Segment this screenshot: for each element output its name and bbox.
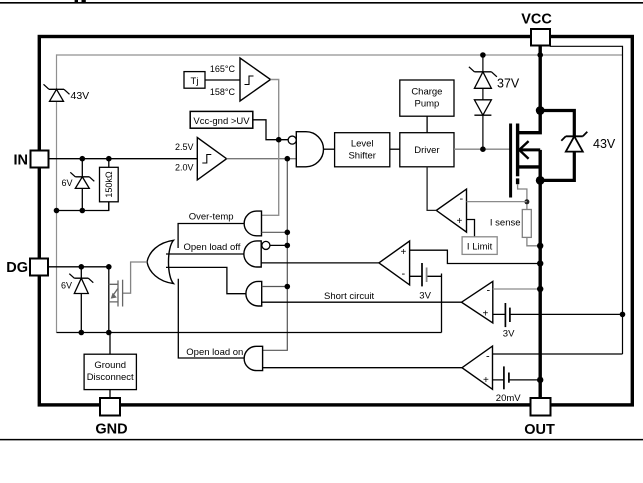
wire: M2 drain-source vertical: [108, 267, 110, 333]
wire: U4 output to G4: [261, 262, 379, 264]
node: sense / comparator junction: [524, 199, 529, 204]
node: line B tap at U2 output: [285, 156, 291, 162]
svg-text:37V: 37V: [497, 77, 520, 91]
wire: G6 output to OR: [178, 279, 244, 358]
wire: OUT thick line: [539, 178, 542, 398]
wire: input signal line B: [263, 159, 288, 351]
wire: IN divider bottom link: [57, 202, 109, 211]
svg-text:+: +: [401, 247, 407, 258]
svg-text:43V: 43V: [71, 90, 90, 102]
node: rail / VCC line junction: [537, 52, 543, 58]
wire: VCC link to right-side sense line: [550, 46, 623, 354]
wire: U6 output to G6 bottom input: [263, 367, 462, 369]
box Driver: [400, 133, 454, 167]
svg-text:DG: DG: [6, 260, 28, 276]
battery B3 20mV: [493, 379, 541, 381]
box Vcc-gnd UV: [190, 111, 253, 128]
IC outline thick border: [39, 37, 632, 405]
node: 37V string / gate wire junction: [480, 146, 486, 152]
svg-text:Pump: Pump: [414, 99, 439, 110]
svg-text:20mV: 20mV: [496, 393, 521, 404]
wire: thermal signal line A: [262, 80, 279, 216]
wire: G2 output to OR: [178, 224, 244, 249]
header rule: [0, 2, 643, 4]
node: zener/resistor bottom junction: [80, 208, 86, 214]
node: DG/zener junction: [79, 264, 85, 270]
node: sense/OUT junction: [537, 243, 543, 249]
wire: sense tap from Q1: [518, 184, 527, 210]
and-gate G2 over-temp (left-pointing): [244, 211, 261, 236]
node: IN/zener junction: [80, 156, 86, 162]
comparator U1 (thermal): [240, 58, 271, 101]
battery B1 3V: [410, 275, 442, 277]
svg-text:43V: 43V: [593, 137, 616, 151]
inverter bubble on G1 input: [288, 136, 296, 144]
zener D1 43V (clamp on rail): [44, 84, 70, 101]
svg-text:Short circuit: Short circuit: [324, 291, 375, 302]
node: right sense line / 3V battery tap: [620, 312, 626, 318]
wire: U6 inverting input to right sense line: [493, 353, 623, 355]
wire: U3 output to Driver: [427, 167, 436, 211]
wire: 43V clamp branch (thick): [540, 111, 574, 181]
svg-text:150kΩ: 150kΩ: [104, 171, 114, 198]
wire: ground line to Ground Disconnect: [109, 333, 111, 355]
svg-text:Disconnect: Disconnect: [87, 372, 134, 383]
svg-text:-: -: [460, 193, 464, 205]
svg-text:+: +: [483, 375, 489, 386]
wire: G3 output to OR: [166, 253, 244, 255]
svg-text:GND: GND: [95, 422, 127, 438]
and-gate G6 open load on (left-pointing): [244, 346, 262, 370]
wire: Charge Pump to Driver: [426, 116, 428, 133]
pin GND: [100, 398, 120, 416]
svg-text:Tj: Tj: [191, 76, 199, 87]
comparator U2 (input threshold): [197, 138, 226, 180]
battery B2 3V: [493, 313, 623, 315]
power MOSFET Q1: [511, 124, 541, 198]
inverter bubble on G3 input: [262, 241, 270, 249]
svg-text:Level: Level: [351, 139, 374, 150]
wire: U2 output: [227, 158, 297, 160]
node: DG/M2 junction: [106, 264, 112, 270]
wire: 37V clamp string: [482, 55, 484, 149]
svg-text:+: +: [457, 216, 463, 227]
node: ground/M2 junction: [106, 330, 112, 336]
wire: U3 inverting input: [467, 201, 527, 203]
svg-text:Open load off: Open load off: [184, 242, 241, 253]
node: line B / G4 junction: [285, 284, 291, 290]
svg-text:Charge: Charge: [411, 87, 442, 98]
pin VCC: [531, 29, 550, 46]
wire: inner VCC rail (top): [57, 54, 623, 56]
node: IN/resistor junction: [106, 156, 112, 162]
node: drain/clamp junction: [536, 106, 545, 115]
svg-text:-: -: [402, 268, 406, 280]
wire: G4 top input to line B: [262, 286, 288, 288]
wire: sense resistor to OUT: [527, 237, 540, 245]
and-gate G3 open load off (left-pointing): [244, 241, 261, 267]
svg-text:2.5V: 2.5V: [175, 142, 194, 152]
svg-text:2.0V: 2.0V: [175, 163, 194, 173]
wire: Tj to comparator: [205, 79, 240, 81]
wire: G4 output to OR: [166, 267, 246, 293]
svg-text:6V: 6V: [61, 281, 72, 291]
svg-text:6V: 6V: [62, 178, 73, 188]
svg-text:Over-temp: Over-temp: [189, 212, 234, 223]
svg-text:VCC: VCC: [521, 12, 552, 28]
box Charge Pump: [400, 80, 454, 116]
node: U5/OUT junction: [537, 286, 543, 292]
svg-text:Shifter: Shifter: [348, 151, 375, 162]
box Tj: [184, 72, 205, 89]
wire: DG net: [48, 266, 109, 268]
svg-text:Vcc-gnd >UV: Vcc-gnd >UV: [193, 116, 250, 127]
wire: G5 output to M2 gate: [123, 262, 147, 293]
comparator U3 (current limit): [436, 189, 466, 232]
or-gate G5 fault (left-pointing): [147, 240, 174, 283]
wire: U4 non-inverting input to OUT: [410, 250, 541, 263]
wire: U3 non-inverting input to I Limit: [467, 220, 475, 237]
wire: G2 bottom input to line B: [262, 231, 288, 233]
zener D2 6V (IN clamp): [70, 159, 94, 211]
wire: U5 inverting input to OUT: [493, 288, 540, 290]
box I Limit: [462, 237, 497, 255]
wire: G3 bubble to line B: [270, 244, 287, 246]
svg-text:Driver: Driver: [414, 145, 439, 156]
transistor M2 (ground disconnect FET): [109, 280, 123, 307]
node: ground/zener junction: [79, 330, 85, 336]
wire: Ground Disconnect to GND pin: [109, 390, 111, 398]
svg-text:3V: 3V: [419, 290, 431, 301]
pin DG: [30, 259, 48, 276]
zener D6 6V (DG clamp): [69, 267, 93, 333]
svg-text:3V: 3V: [503, 328, 515, 339]
svg-text:OUT: OUT: [524, 422, 555, 438]
node: rail / 37V string junction: [480, 52, 486, 58]
wire: UV to AND input: [253, 120, 288, 140]
wire: inner rail left vertical: [56, 54, 58, 332]
wire: VCC thick line to drain: [518, 46, 541, 133]
pin IN: [31, 151, 49, 168]
svg-text:-: -: [486, 351, 490, 363]
svg-text:158°C: 158°C: [210, 87, 236, 97]
svg-text:I sense: I sense: [490, 218, 521, 229]
header text remnant: [75, 0, 78, 2]
svg-text:Ground: Ground: [94, 360, 126, 371]
box Level Shifter: [335, 133, 390, 167]
wire: G1 output: [324, 148, 335, 150]
node: B3/OUT junction: [537, 377, 543, 383]
node: line B / G2 junction: [285, 230, 291, 236]
svg-text:165°C: 165°C: [210, 64, 236, 74]
and-gate G4 short circuit (left-pointing): [246, 281, 262, 306]
node: line B / G3 junction: [285, 243, 291, 249]
box Ground Disconnect: [84, 354, 136, 389]
comparator U4 (short circuit detect): [379, 241, 410, 285]
node: U4/OUT junction: [537, 260, 543, 266]
zener D3 37V: [469, 67, 497, 89]
svg-text:Open load on: Open load on: [186, 347, 243, 358]
node: rail-IN divider junction: [54, 208, 60, 214]
wire: U5 output to G4 bottom input: [262, 301, 462, 303]
comparator U5 (open load off detect): [462, 281, 493, 323]
wire: Driver to gate: [454, 148, 511, 150]
comparator U6 (open load on detect): [462, 346, 493, 389]
svg-text:-: -: [487, 285, 491, 297]
diode D4: [474, 100, 491, 115]
wire: LS to Driver: [390, 148, 400, 150]
svg-text:I Limit: I Limit: [467, 241, 493, 252]
node: source/clamp junction: [536, 176, 545, 185]
svg-text:IN: IN: [14, 152, 29, 168]
resistor R2 I sense: [522, 210, 531, 238]
pin OUT: [531, 398, 551, 416]
resistor R1 150k: [108, 159, 110, 211]
wire: IN net: [49, 158, 198, 160]
svg-text:+: +: [483, 309, 489, 320]
and-gate G1 (enable, right-pointing): [296, 132, 323, 167]
node: line A / UV-AND input junction: [276, 137, 282, 143]
footer rule: [0, 439, 643, 441]
wire: internal ground line: [57, 332, 442, 334]
wire: B1 to ground line: [441, 274, 443, 333]
zener D5 43V (output clamp): [561, 132, 587, 152]
